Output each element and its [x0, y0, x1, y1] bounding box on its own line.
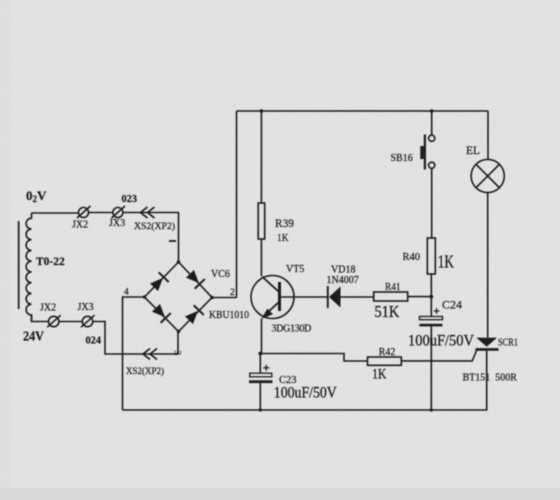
svg-text:1N4007: 1N4007: [327, 275, 359, 286]
transformer T0-22 winding: [26, 213, 31, 322]
resistor R39: [260, 111, 262, 276]
svg-text:VD18: VD18: [331, 265, 355, 276]
svg-text:3DG130D: 3DG130D: [272, 324, 312, 335]
svg-text:R39: R39: [275, 218, 294, 230]
lamp EL: [471, 159, 504, 192]
svg-text:SCR1: SCR1: [498, 338, 518, 349]
svg-text:24V: 24V: [23, 330, 44, 345]
svg-text:KBU1010: KBU1010: [209, 310, 249, 321]
svg-text:SB16: SB16: [391, 153, 413, 164]
svg-text:R41: R41: [385, 282, 401, 293]
junction R41/R40/C24: [429, 295, 433, 299]
bridge node right dot: [210, 296, 213, 299]
capacitor C23: [250, 373, 272, 377]
connector JX3 top: [112, 206, 126, 218]
svg-text:100uF/50V: 100uF/50V: [274, 385, 338, 402]
junction emitter/C23/R42: [258, 352, 262, 356]
diode VD18: [327, 286, 329, 308]
connector JX3 bottom: [81, 315, 95, 327]
wire: EL to SCR: [487, 193, 489, 338]
bridge diode lower-left: [151, 303, 171, 323]
wire: bridge node2 to top rail: [212, 111, 237, 298]
svg-text:02V: 02V: [26, 188, 47, 204]
svg-text:JX2: JX2: [72, 220, 88, 231]
C23 plus sign: [263, 365, 269, 371]
wire: VD18 to R41: [341, 296, 374, 298]
svg-text:VT5: VT5: [286, 264, 304, 275]
junction at R39 top: [260, 109, 264, 113]
svg-text:1K: 1K: [277, 232, 289, 244]
svg-text:VC6: VC6: [211, 269, 230, 280]
wire: transformer bottom row: [32, 315, 179, 354]
bridge diode upper-right: [185, 269, 205, 289]
svg-text:R42: R42: [379, 347, 396, 358]
wire: junction to R42: [260, 354, 367, 362]
connector JX2 bottom: [47, 315, 61, 327]
svg-text:XS2(XP2): XS2(XP2): [134, 221, 175, 232]
svg-text:100uF/50V: 100uF/50V: [408, 333, 474, 350]
wire: emitter down: [261, 319, 263, 354]
junction at SB16 top: [430, 109, 434, 113]
svg-text:C24: C24: [442, 298, 462, 312]
resistor R40: [427, 238, 435, 274]
plug XS2(XP2) bottom chevrons: [143, 349, 157, 360]
svg-text:4: 4: [124, 288, 129, 298]
bridge diode upper-left: [149, 272, 169, 292]
resistor R42: [368, 357, 402, 365]
transformer T0-22 core: [18, 221, 20, 309]
svg-text:024: 024: [86, 335, 102, 347]
pushbutton SB16: [431, 111, 433, 135]
svg-text:T0-22: T0-22: [36, 256, 65, 268]
wire: EL branch from top rail: [487, 111, 489, 159]
wire: transformer top to bridge: [32, 213, 179, 263]
plug XS2(XP2) top chevrons: [141, 207, 155, 218]
svg-text:2: 2: [230, 288, 235, 298]
capacitor C24: [419, 317, 442, 320]
junction C23 at bottom rail: [259, 408, 262, 411]
svg-text:1K: 1K: [372, 367, 387, 383]
svg-text:JX2: JX2: [40, 303, 56, 314]
wire: node4 to bottom rail: [123, 297, 145, 410]
resistor R41: [374, 292, 408, 301]
bridge node bottom dot: [177, 330, 180, 333]
svg-text:JX3: JX3: [78, 302, 94, 313]
wire: top rail: [237, 110, 489, 112]
junction C24 at bottom rail: [430, 408, 433, 411]
bridge rectifier VC6 diamond: [145, 262, 213, 332]
svg-text:1K: 1K: [438, 252, 454, 272]
transistor VT5: [251, 276, 294, 319]
svg-text:3: 3: [173, 351, 183, 356]
svg-text:JX3: JX3: [109, 218, 125, 229]
wire: R41 to junction: [408, 296, 432, 298]
wire: bottom rail: [123, 409, 488, 411]
SCR gate wire: [401, 351, 476, 361]
svg-text:023: 023: [122, 193, 138, 205]
bridge diode lower-right: [184, 305, 204, 325]
wire: base: [281, 296, 328, 298]
bridge node left dot: [143, 295, 146, 298]
thyristor SCR1: [476, 338, 497, 347]
svg-text:EL: EL: [466, 145, 480, 157]
bridge node top dot: [177, 260, 180, 263]
connector JX2 top: [77, 206, 91, 218]
minus label at bridge top: [169, 240, 176, 242]
svg-text:R40: R40: [403, 252, 421, 263]
wire: SCR cathode to bottom rail: [486, 351, 488, 410]
svg-text:XS2(XP2): XS2(XP2): [126, 366, 164, 377]
svg-text:BT151 500R: BT151 500R: [463, 373, 518, 384]
C24 plus sign: [434, 308, 440, 314]
svg-text:51K: 51K: [374, 302, 399, 321]
